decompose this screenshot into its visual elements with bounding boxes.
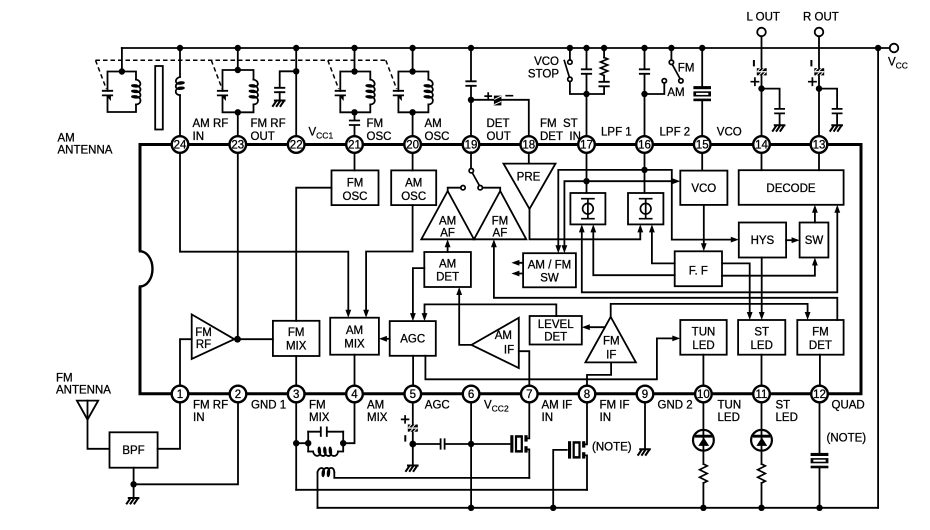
pin 2 GND 1 [230,386,286,412]
svg-text:IF: IF [504,344,514,356]
wire HYS to ST LED [759,258,765,321]
switch FM/AM [645,45,684,94]
svg-text:18: 18 [522,140,535,152]
block AM OSC [391,170,436,205]
svg-text:FM RF: FM RF [251,118,286,130]
capacitor C1 at pin 22 to ground [275,45,299,136]
resistor R1 and capacitor C6 branch [587,45,609,94]
block ST LED [738,320,785,355]
svg-text:F. F: F. F [689,265,708,277]
svg-text:3: 3 [293,389,299,401]
svg-text:15: 15 [696,140,709,152]
pin 3 FM MIX [288,386,330,424]
wire ST LED to pin 11 [761,355,763,386]
svg-text:AGC: AGC [400,334,425,346]
tank circuit T5 (FM MIX coil/cap) [296,402,354,456]
pin 24 AM RF IN [172,118,229,153]
svg-text:13: 13 [813,140,826,152]
pin 13 [811,136,828,153]
block FM DET [797,320,843,355]
svg-text:FM: FM [56,373,73,385]
svg-text:12: 12 [813,389,826,401]
wire VCO to F.F [701,205,707,251]
svg-text:OSC: OSC [401,191,426,203]
capacitor C13 pin5 node to pin6 [413,439,471,448]
svg-text:16: 16 [638,140,651,152]
svg-text:MIX: MIX [344,338,365,350]
svg-text:TUN: TUN [718,399,742,411]
arrows AM/FM SW control outputs [511,260,523,277]
ceramic resonator X2 at pin 12 [811,402,867,511]
svg-text:AM IF: AM IF [542,399,573,411]
svg-text:14: 14 [755,140,768,152]
block AGC [390,321,436,356]
pin 21 FM OSC [346,118,391,153]
wire AM DET to AM AF [445,239,451,252]
svg-text:IF: IF [606,350,616,362]
switch AF select at pin 19 [448,152,501,191]
svg-text:GND 2: GND 2 [658,399,693,411]
svg-text:FM IF: FM IF [600,399,630,411]
ground at pin 5 [406,444,418,471]
pin 20 AM OSC [404,118,449,153]
ceramic filter CF2 at pin 8 [550,402,632,511]
svg-text:FM: FM [603,336,620,348]
block FM MIX [273,321,320,356]
wire pin 16 to phase det 2 [641,153,647,193]
svg-text:SW: SW [805,235,824,247]
pin 8 FM IF IN [579,386,630,424]
pin 6 VCC2 [463,386,509,414]
svg-text:AM: AM [495,330,512,342]
svg-text:DET IN: DET IN [540,131,581,143]
block LEVEL DET [530,316,582,345]
svg-text:7: 7 [526,389,532,401]
svg-text:STOP: STOP [528,69,559,81]
svg-text:ST: ST [754,327,769,339]
electrolytic C8 at L OUT [751,36,766,135]
block PLL phase det 2 [628,193,663,224]
block F.F [675,251,722,286]
wire pin 23 to FM RF node [237,153,239,339]
wire BPF to ground node [130,468,136,498]
label FM (switch) [678,63,695,75]
svg-text:AF: AF [493,227,508,239]
svg-text:17: 17 [580,140,593,152]
pin 22 VCC1 [288,126,334,152]
svg-text:AM: AM [425,118,442,130]
wire pin 20 to AM OSC [412,153,414,171]
svg-text:22: 22 [290,140,303,152]
pin 9 GND 2 [637,386,693,412]
svg-text:LPF 1: LPF 1 [601,127,632,139]
svg-text:20: 20 [406,140,419,152]
svg-text:IN: IN [600,412,612,424]
svg-text:FM: FM [678,63,695,75]
wire pin 17 to phase det 1 [583,153,589,193]
capacitor C2 at pin 21 [350,121,359,136]
svg-text:DET: DET [809,340,832,352]
amplifier PRE [504,164,556,209]
svg-text:QUAD: QUAD [832,399,865,411]
inductor L1 at pin 24 [176,45,184,136]
svg-text:AM: AM [405,178,422,190]
capacitor C5 at pin 17 [582,45,591,136]
wire pilot net phase det 1 / DECODE [579,205,840,292]
node FM RF out junction [234,336,273,343]
svg-text:TUN: TUN [692,327,716,339]
wire FM DET to FM AF [491,239,837,320]
svg-text:ANTENNA: ANTENNA [56,385,111,397]
amplifier AM AF [421,191,474,239]
svg-text:IN: IN [193,412,205,424]
LED D1 at pin 10 [693,402,714,464]
wire pin 14 to DECODE [761,153,763,170]
svg-text:19: 19 [465,140,478,152]
AM antenna ferrite rod [155,66,163,130]
Vcc terminal [888,44,908,71]
wire AM MIX to pin 4 [354,355,356,386]
svg-text:IN: IN [193,131,205,143]
block FM OSC [332,170,379,205]
capacitor C11 + ground at R OUT [819,89,842,131]
pin 12 QUAD [811,386,865,412]
svg-text:MIX: MIX [367,412,388,424]
pin 1 FM RF IN [172,386,228,424]
svg-text:SW: SW [540,273,559,285]
block DECODE [739,170,844,205]
wire HYS to SW [786,237,800,243]
wire FM MIX to pin 3 [295,356,297,386]
svg-text:23: 23 [231,140,244,152]
electrolytic C10 at R OUT [809,36,824,135]
svg-text:MIX: MIX [286,340,307,352]
pin 11 ST LED [753,386,798,424]
svg-text:FM: FM [492,215,509,227]
wire pin 6 to bottom rail [468,402,474,511]
label FM ANTENNA [56,373,111,397]
block AM DET [424,252,471,287]
R OUT terminal [803,12,839,37]
svg-text:R OUT: R OUT [803,12,839,24]
wire F.F to phase det 1 [590,224,674,275]
wire pin 1 to FM RF in [180,339,192,386]
electrolytic C12 at pin 5 [402,402,418,447]
pin 16 LPF 2 [636,127,690,153]
tank circuit T4 (AM OSC) [394,45,433,136]
svg-text:AM RF: AM RF [193,118,229,130]
Vcc rail [122,47,890,49]
resistor R3 at pin 11 [758,464,766,511]
resistor R2 at pin 10 [700,464,708,511]
block HYS [739,223,786,258]
svg-text:HYS: HYS [751,235,775,247]
svg-text:FM: FM [195,327,212,339]
svg-text:L OUT: L OUT [747,12,780,24]
block TUN LED [680,320,726,355]
svg-text:(NOTE): (NOTE) [592,442,632,454]
ground at C1 [273,101,285,107]
svg-text:OSC: OSC [367,131,392,143]
svg-text:2: 2 [235,389,241,401]
svg-text:VCO: VCO [717,127,742,139]
wire LEVEL DET to AGC [422,304,557,321]
svg-text:DET: DET [436,272,459,284]
wire FM IF to LEVEL DET [582,324,604,330]
pin 4 AM MIX [346,386,388,424]
svg-text:4: 4 [351,389,358,401]
svg-text:LED: LED [718,412,740,424]
svg-text:AGC: AGC [425,399,450,411]
block AM MIX [330,318,379,355]
pin 15 VCO [694,127,742,153]
tank circuit T3 (FM OSC) [336,45,375,120]
svg-text:ANTENNA: ANTENNA [58,145,113,157]
svg-text:DECODE: DECODE [766,183,816,195]
wire pin 15 to VCO [701,153,703,171]
svg-text:LED: LED [776,412,798,424]
svg-text:5: 5 [410,389,416,401]
svg-text:FM: FM [309,399,326,411]
svg-text:FM: FM [288,327,305,339]
svg-text:AM: AM [367,399,384,411]
LED D2 at pin 11 [751,402,772,464]
svg-text:FM: FM [367,118,384,130]
block SW [800,223,829,258]
capacitor C3 at pin 19 [466,45,475,136]
svg-text:AM: AM [439,258,456,270]
svg-text:OUT: OUT [487,131,511,143]
svg-text:RF: RF [196,339,211,351]
svg-text:MIX: MIX [309,412,330,424]
svg-text:DET: DET [487,118,510,130]
pin 18 FM ST DET IN [521,118,581,153]
wire FM OSC to FM MIX [296,188,331,321]
block AM/FM SW [523,253,576,287]
svg-text:DET: DET [544,332,567,344]
label AM ANTENNA [58,133,113,157]
svg-text:OUT: OUT [251,131,275,143]
svg-text:FM RF: FM RF [193,399,228,411]
wire pin 8 to FM IF [587,362,611,385]
svg-text:OSC: OSC [343,191,368,203]
svg-text:1: 1 [177,389,183,401]
pin 14 [753,136,770,153]
svg-text:FM: FM [347,178,364,190]
svg-text:LED: LED [692,340,714,352]
wire AGC to AM MIX [379,336,390,342]
ground at pin 9 [638,402,650,455]
tank circuit T1 (AM RF) [103,48,141,112]
wire F.F to SW [722,258,818,276]
svg-text:IN: IN [542,412,554,424]
tank circuit T2 (FM RF) [218,45,258,136]
svg-text:10: 10 [697,389,710,401]
pin 7 AM IF IN [521,386,572,424]
wire AGC to pin 5 [412,356,414,386]
amplifier FM IF [585,317,636,363]
svg-text:8: 8 [584,389,590,401]
wire pin 17 node to AM/FM SW and VCO [562,178,681,253]
amplifier AM IF [472,318,519,368]
wire pin 18 to PRE [528,153,530,164]
switch VCO STOP [564,45,586,94]
gang arrow to T1 [96,60,111,101]
label VCO STOP [528,56,559,81]
wire pin 13 to DECODE [818,153,820,170]
wire Vcc rail right drop to bottom rail [875,45,881,508]
svg-text:9: 9 [642,389,648,401]
svg-text:ST: ST [776,399,791,411]
wire pin 24 to AM MIX [180,153,351,318]
svg-text:AM / FM: AM / FM [528,259,571,271]
svg-text:21: 21 [348,140,361,152]
wire PRE to phase det 2 [530,209,644,239]
wire ground node to pin 2 [134,402,238,484]
svg-text:AM: AM [346,325,363,337]
svg-text:VCO: VCO [691,183,716,195]
L OUT terminal [747,12,780,37]
pin 10 TUN LED [695,386,741,424]
svg-text:LED: LED [751,340,773,352]
ceramic resonator X1 at pin 15 [693,45,711,136]
svg-text:FM: FM [812,327,829,339]
wire AGC to TUN LED [425,336,680,380]
svg-text:(NOTE): (NOTE) [827,433,867,445]
svg-text:VCO: VCO [534,56,559,68]
wire FM IF to FM DET [611,304,811,320]
wire pin 3 down [293,402,299,490]
capacitor C9 + ground at L OUT [762,89,785,131]
svg-text:11: 11 [756,389,768,401]
amplifier FM RF [192,314,235,359]
wire TUN LED to pin 10 [702,355,704,386]
pin 5 AGC [405,386,450,412]
wire pin 7 to AM IF [519,351,530,386]
pin 23 FM RF OUT [230,118,286,153]
capacitor C7 at pin 16 [640,45,649,136]
label AM (switch) [667,87,684,99]
gang arrow to T3 [328,60,344,101]
ground at BPF [127,498,139,504]
pin 17 LPF 1 [578,127,631,153]
wire BPF to pin 1 [158,402,180,449]
wire F.F to phase det 2 [649,224,675,263]
svg-text:24: 24 [174,140,187,152]
svg-text:FM ST: FM ST [540,118,578,130]
svg-text:6: 6 [468,389,474,401]
svg-text:OSC: OSC [425,131,450,143]
tuning gang dashed line [96,59,386,61]
gang arrow to T2 [211,60,226,101]
svg-text:AM: AM [439,215,456,227]
wire pin 21 to FM OSC [354,153,356,171]
wire F.F to ST LED [722,263,753,320]
amplifier FM AF [474,191,526,239]
FM antenna symbol [77,401,110,449]
pin 19 DET OUT [463,118,511,153]
wire AM IF to AM DET [456,287,471,345]
electrolytic C4 pin19 to pin18 [471,93,529,136]
svg-text:AM: AM [58,133,75,145]
wire AM OSC to AM MIX [363,205,412,318]
svg-text:LPF 2: LPF 2 [660,127,691,139]
transformer secondary coil [318,468,530,508]
svg-text:AM: AM [667,87,684,99]
block PLL phase det 1 [570,193,605,224]
block BPF [110,432,158,467]
ceramic filter CF1 at pin 7 [471,402,529,478]
bottom rail wire [318,507,879,509]
svg-text:PRE: PRE [517,172,541,184]
wire SW to DECODE [812,205,818,223]
svg-text:GND 1: GND 1 [251,399,286,411]
wire AM DET to AGC [410,268,424,321]
wire FM DET to pin 12 [819,355,821,386]
svg-text:BPF: BPF [122,445,144,457]
svg-text:LEVEL: LEVEL [538,319,574,331]
block VCO [680,171,727,205]
wire pin 16 node to AM/FM SW and HYS [555,170,738,253]
svg-text:AF: AF [440,227,455,239]
wire pin 3 to FM IF filter [296,489,587,491]
IC body [140,145,861,394]
gang arrow to T4 [386,60,402,101]
